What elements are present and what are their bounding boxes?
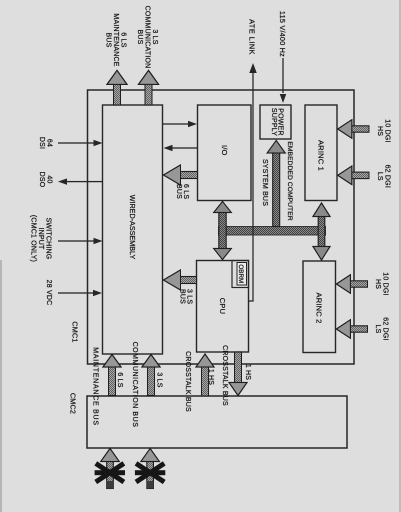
WIRED-ASSEMBLY box xyxy=(103,105,163,354)
svg-text:HS: HS xyxy=(376,126,383,136)
bus branch to ARINC 1 and ARINC 2 (double arrow) xyxy=(313,203,330,260)
svg-text:BUS: BUS xyxy=(179,289,186,304)
arrow 6 LS maintenance bus out left xyxy=(107,70,127,105)
svg-text:6 LS: 6 LS xyxy=(182,184,189,199)
svg-text:40: 40 xyxy=(46,175,53,183)
svg-text:3 LS: 3 LS xyxy=(151,29,158,44)
asterisk on communication bus xyxy=(135,463,165,482)
svg-text:SYSTEM BUS: SYSTEM BUS xyxy=(261,159,268,206)
svg-text:CROSSTALK BUS: CROSSTALK BUS xyxy=(184,351,191,412)
svg-text:OBRM: OBRM xyxy=(237,264,244,283)
svg-text:COMMUNICATION BUS: COMMUNICATION BUS xyxy=(131,342,138,428)
asterisk on maintenance bus xyxy=(95,463,125,482)
svg-text:HS: HS xyxy=(374,279,381,289)
svg-text:BUS: BUS xyxy=(105,33,112,48)
svg-text:EMBEDDED COMPUTER: EMBEDDED COMPUTER xyxy=(286,141,293,220)
115 V/400 Hz arrow into power supply xyxy=(282,58,284,93)
svg-text:62 DGI: 62 DGI xyxy=(384,165,391,188)
arrow 3 LS communication bus out left xyxy=(139,70,159,105)
system bus vertical bar xyxy=(219,227,326,236)
OBRM box outer xyxy=(232,261,249,288)
64 DSI arrow into wired-assembly xyxy=(58,142,94,144)
svg-text:DSO: DSO xyxy=(38,172,45,188)
svg-text:6 LS: 6 LS xyxy=(120,32,127,47)
svg-text:MAINTENANCE: MAINTENANCE xyxy=(112,13,119,66)
svg-text:28 VDC: 28 VDC xyxy=(45,280,52,306)
svg-text:LS: LS xyxy=(376,172,383,181)
ARINC 2 box xyxy=(303,261,336,353)
dark shaft stub maintenance bus xyxy=(106,481,113,489)
svg-text:6 LS: 6 LS xyxy=(116,372,123,387)
svg-text:CROSSTALK BUS: CROSSTALK BUS xyxy=(221,345,228,406)
svg-text:MAINTENANCE BUS: MAINTENANCE BUS xyxy=(92,347,99,426)
svg-text:62 DGI: 62 DGI xyxy=(382,317,389,340)
OBRM box inner xyxy=(237,263,247,286)
arrow 6 LS bus I/O to wired-assembly xyxy=(164,165,198,185)
CMC2 box xyxy=(87,396,347,448)
arrow crosstalk bus CPU to CMC2 xyxy=(229,352,247,396)
arrow communication bus into CMC2 right xyxy=(141,449,159,489)
scan artifact left edge lower xyxy=(0,260,2,512)
arrow 10 DGI HS into ARINC 1 xyxy=(338,120,369,138)
svg-text:POWER: POWER xyxy=(277,108,284,135)
ARINC 1 box xyxy=(305,105,337,201)
svg-text:BUS: BUS xyxy=(175,184,182,199)
bus link I/O to CPU (double arrow) xyxy=(214,202,231,260)
thin arrow wired-assembly to I/O xyxy=(163,123,189,125)
svg-text:(CMC1 ONLY): (CMC1 ONLY) xyxy=(30,215,37,262)
arrow 62 DGI LS into ARINC 2 xyxy=(336,320,367,338)
POWER SUPPLY box xyxy=(260,105,291,139)
svg-text:CPU: CPU xyxy=(218,298,227,314)
I/O box xyxy=(198,105,252,201)
svg-text:INPUT: INPUT xyxy=(37,228,44,251)
svg-text:I/O: I/O xyxy=(220,145,229,156)
svg-text:10 DGI: 10 DGI xyxy=(384,119,391,142)
bus branch to POWER SUPPLY xyxy=(267,141,285,227)
arrow 10 DGI HS into ARINC 2 xyxy=(336,275,367,293)
ATE LINK arrow head xyxy=(249,63,257,73)
arrow 3 LS bus CPU to wired-assembly xyxy=(164,270,197,290)
CMC1 outer box xyxy=(88,90,355,364)
dark shaft stub communication bus xyxy=(147,481,154,489)
CPU box xyxy=(197,261,249,353)
svg-text:CMC2: CMC2 xyxy=(69,393,78,414)
svg-text:ATE LINK: ATE LINK xyxy=(248,19,257,55)
thin arrow I/O to wired-assembly xyxy=(172,147,197,149)
40 DSO arrow out of wired-assembly xyxy=(67,181,103,183)
svg-text:WIRED-ASSEMBLY: WIRED-ASSEMBLY xyxy=(128,195,137,260)
svg-text:1 HS: 1 HS xyxy=(207,369,214,385)
svg-text:SWITCHING: SWITCHING xyxy=(45,218,52,260)
arrow maintenance bus into CMC2 right xyxy=(101,449,119,489)
svg-text:COMMUNICATION: COMMUNICATION xyxy=(144,6,151,69)
arrow crosstalk bus CMC2 to CPU xyxy=(196,354,214,396)
svg-text:1 HS: 1 HS xyxy=(244,364,251,380)
arrow 62 DGI LS into ARINC 1 xyxy=(338,166,369,185)
28 VDC arrow into wired-assembly xyxy=(58,292,94,294)
scan artifact right edge xyxy=(399,0,401,512)
svg-text:DSI: DSI xyxy=(38,137,45,149)
svg-text:ARINC 2: ARINC 2 xyxy=(315,293,324,324)
svg-text:115 V/400 Hz: 115 V/400 Hz xyxy=(278,11,287,57)
svg-text:10 DGI: 10 DGI xyxy=(382,272,389,295)
svg-text:3 LS: 3 LS xyxy=(186,289,193,304)
svg-text:3 LS: 3 LS xyxy=(156,372,163,387)
svg-text:ARINC 1: ARINC 1 xyxy=(316,140,325,171)
svg-text:SUPPLY: SUPPLY xyxy=(270,108,277,136)
arrow 6 LS maintenance bus CMC2 to wired-assembly xyxy=(103,355,121,396)
svg-text:64: 64 xyxy=(46,139,53,147)
svg-text:LS: LS xyxy=(374,325,381,334)
arrow 3 LS communication bus CMC2 to wired-assembly xyxy=(142,355,160,396)
svg-text:BUS: BUS xyxy=(136,30,143,45)
ATE LINK line xyxy=(249,72,253,301)
svg-text:CMC1: CMC1 xyxy=(71,321,80,342)
switching input arrow into wired-assembly xyxy=(58,240,94,242)
